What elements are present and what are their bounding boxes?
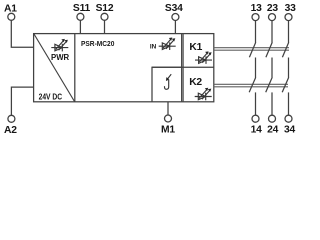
svg-text:PSR-MC20: PSR-MC20 bbox=[81, 41, 114, 48]
LED K1 bbox=[195, 51, 212, 64]
contact 23-24 upper (K1) bbox=[266, 21, 272, 78]
wire M1 bbox=[167, 102, 169, 115]
terminal M1 bbox=[165, 115, 172, 122]
relay K1 cell bottom edge bbox=[152, 66, 214, 68]
svg-text:PWR: PWR bbox=[51, 53, 70, 62]
contact 13-14 lower (K2) bbox=[249, 77, 256, 115]
svg-text:14: 14 bbox=[251, 125, 263, 136]
wire S34 bbox=[174, 21, 176, 34]
wire A1 bbox=[11, 20, 33, 47]
terminal 24 bbox=[269, 115, 276, 122]
divider double line bbox=[181, 34, 183, 102]
contact 13-14 upper (K1) bbox=[249, 21, 255, 78]
LED IN bbox=[159, 38, 176, 51]
svg-text:S34: S34 bbox=[165, 3, 183, 14]
contact 33-34 lower (K2) bbox=[282, 77, 289, 115]
contact 33-34 upper (K1) bbox=[282, 21, 288, 78]
module PSR-MC20 outline bbox=[34, 34, 214, 102]
svg-text:13: 13 bbox=[251, 3, 263, 14]
logic symbol bbox=[164, 74, 171, 89]
K2 linkage double line bbox=[214, 83, 288, 85]
svg-text:IN: IN bbox=[150, 43, 157, 50]
K1 linkage double line bbox=[214, 47, 289, 49]
LED K2 bbox=[195, 88, 212, 101]
svg-text:A2: A2 bbox=[4, 125, 17, 136]
svg-text:24: 24 bbox=[267, 125, 279, 136]
wire S12 bbox=[104, 20, 106, 33]
svg-text:34: 34 bbox=[284, 125, 296, 136]
svg-text:S11: S11 bbox=[73, 3, 91, 14]
power supply block divider bbox=[74, 34, 76, 102]
terminal 34 bbox=[285, 115, 292, 122]
svg-text:K2: K2 bbox=[189, 77, 202, 88]
LED PWR bbox=[51, 39, 68, 52]
svg-text:23: 23 bbox=[267, 3, 279, 14]
terminal A2 bbox=[8, 115, 15, 122]
wire S11 bbox=[79, 20, 81, 33]
svg-text:S12: S12 bbox=[96, 3, 114, 14]
contact 23-24 lower (K2) bbox=[266, 77, 273, 115]
logic box bbox=[152, 67, 181, 102]
svg-text:M1: M1 bbox=[161, 125, 175, 136]
svg-text:33: 33 bbox=[285, 3, 297, 14]
svg-text:24V DC: 24V DC bbox=[39, 92, 63, 101]
wire A2 bbox=[11, 87, 33, 115]
power supply diagonal bbox=[34, 34, 75, 102]
svg-text:K1: K1 bbox=[189, 42, 202, 53]
terminal 14 bbox=[252, 115, 259, 122]
